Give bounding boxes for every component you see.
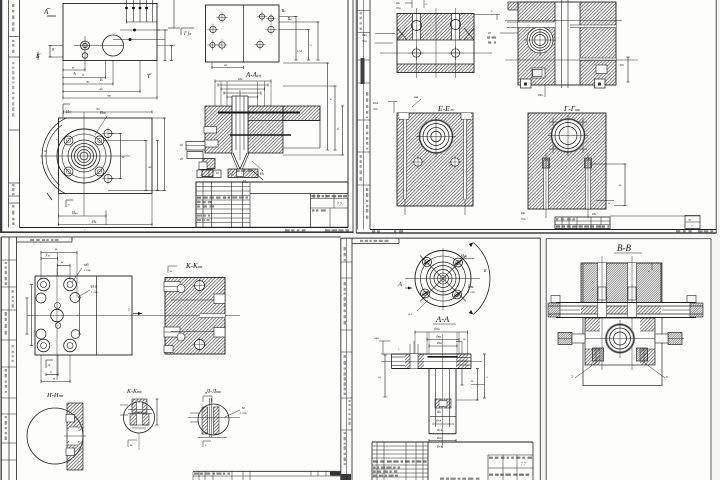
svg-text:Б: Б [99,77,103,82]
svg-text:1 отв: 1 отв [468,290,475,294]
svg-text:б: б [82,73,84,77]
svg-text:7пв: 7пв [373,107,378,111]
svg-text:7: 7 [68,203,70,207]
svg-text:Ǿтя: Ǿтя [436,418,442,423]
svg-text:Ǿщ: Ǿщ [436,334,442,339]
svg-text:7.7: 7.7 [337,203,342,207]
svg-text:Øлв: Øлв [373,101,379,105]
svg-text:Øв: Øв [521,211,526,215]
svg-text:Øч: Øч [396,1,401,5]
svg-text:лт: лт [98,87,104,91]
svg-text:Ǿтв: Ǿтв [437,427,443,432]
svg-text:лв: лв [85,80,90,84]
svg-text:В-В: В-В [617,243,631,253]
svg-text:8: 8 [52,47,54,52]
svg-text:Ǿв: Ǿв [437,409,441,414]
svg-text:Ǿм: Ǿм [437,340,443,345]
svg-text:Øв: Øв [592,212,597,216]
svg-text:лу: лу [688,218,691,222]
svg-text:И-Итв: И-Итв [46,392,63,399]
svg-text:1: 1 [128,307,130,312]
svg-text:Øщ: Øщ [461,253,467,258]
svg-text:Øьа: Øьа [72,210,78,215]
svg-text:⇅в: ⇅в [287,16,292,21]
svg-text:1 отв.: 1 отв. [91,290,98,294]
svg-text:Ум: Ум [45,253,50,258]
svg-text:мб: мб [84,262,89,267]
svg-text:д-т: д-т [408,312,413,316]
svg-text:А: А [72,71,76,76]
svg-text:щт: щт [374,336,379,340]
svg-text:б: б [205,391,207,395]
svg-text:Ǿщ: Ǿщ [437,435,442,440]
svg-text:щ: щ [378,375,381,379]
svg-text:⊥: ⊥ [200,172,204,177]
svg-text:Ǿтя: Ǿтя [434,326,440,331]
svg-text:Øлв: Øлв [100,110,106,115]
svg-text:7пв: 7пв [396,6,401,10]
svg-text:1 отв: 1 отв [84,268,91,272]
svg-text:К-Ктв: К-Ктв [185,262,203,270]
svg-text:7пв: 7пв [362,39,367,43]
svg-text:б: б [337,127,339,131]
svg-text:а: а [608,201,610,205]
svg-text:Ил: Ил [65,109,71,114]
svg-text:Øв: Øв [92,219,97,224]
svg-text:7пв: 7пв [521,217,526,221]
svg-text:Ǿм: Ǿм [468,284,474,289]
svg-text:А-А(з): А-А(з) [245,71,262,79]
svg-text:м: м [43,148,47,153]
svg-text:лт: лт [147,165,153,169]
svg-text:131: 131 [297,49,303,53]
svg-text:1: 1 [571,374,573,379]
svg-text:Ø.б: Ø.б [91,284,97,289]
svg-text:7: 7 [691,225,693,229]
svg-text:R: R [483,268,487,273]
svg-text:Øм: Øм [238,77,243,81]
svg-text:⇅в: ⇅в [281,8,286,13]
svg-text:за: за [223,63,227,67]
svg-text:А-А: А-А [435,314,450,324]
svg-text:7.7: 7.7 [521,463,526,467]
svg-text:Ǿтв: Ǿтв [437,444,443,449]
svg-text:тв: тв [107,94,112,98]
svg-text:1 отв: 1 отв [240,411,247,415]
svg-text:А: А [397,281,402,288]
